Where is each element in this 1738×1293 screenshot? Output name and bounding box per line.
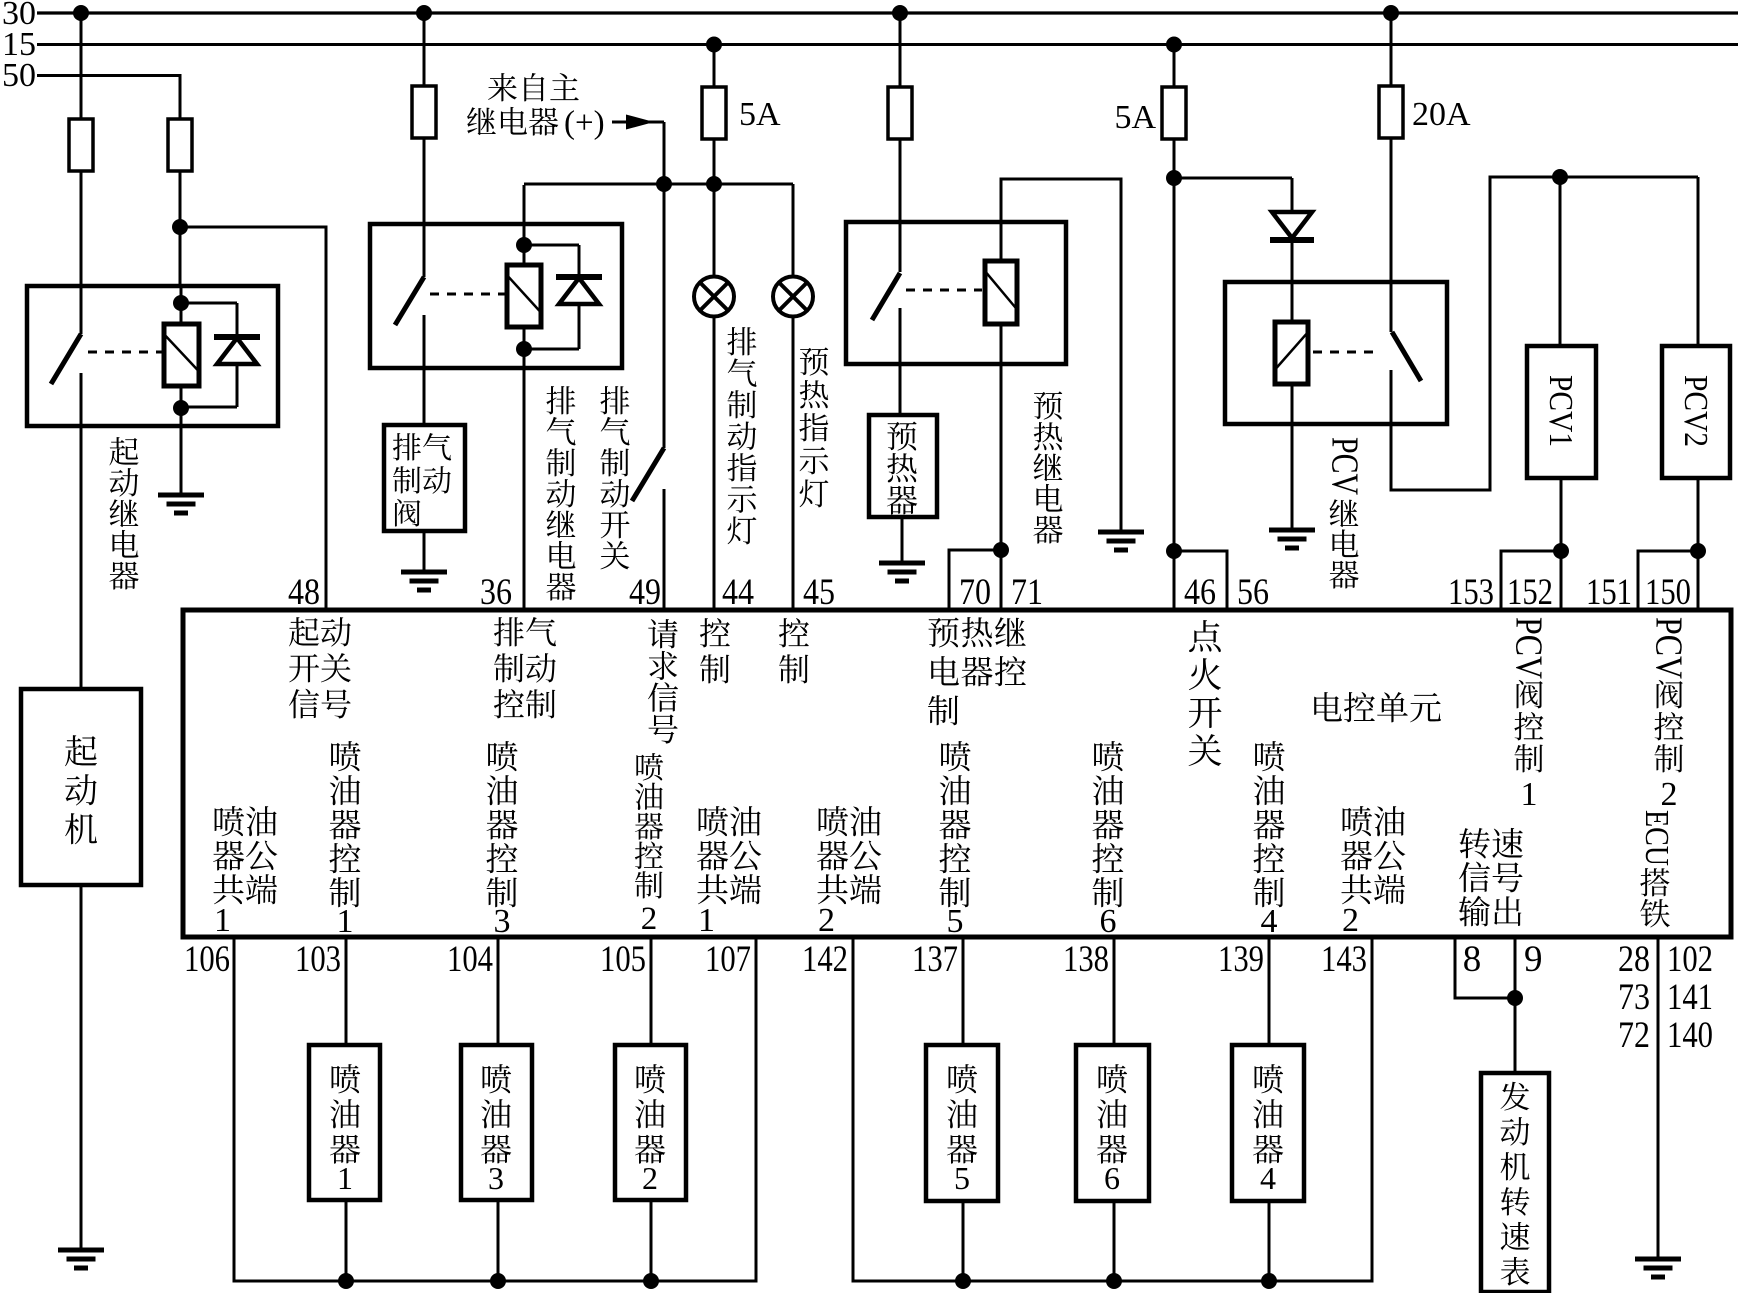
svg-text:PCV2: PCV2 <box>1677 375 1714 447</box>
bus 50 label <box>2 57 36 94</box>
wire K4 coil to ground <box>1291 384 1294 530</box>
wire bus30 to fuse F7 <box>1390 13 1393 87</box>
pin 105 <box>600 939 646 980</box>
pin 71 <box>1011 572 1043 613</box>
label 转速信号输出 <box>1459 828 1523 927</box>
K1 switch <box>51 288 81 428</box>
wire K2 to exhaust brake valve <box>423 368 426 427</box>
label 来自主继电器(+) <box>467 73 605 141</box>
exhaust brake switch 排气制动开关 <box>632 122 664 612</box>
node inj3 junction <box>490 1273 506 1289</box>
svg-text:105: 105 <box>600 939 646 980</box>
wire F2 to node A <box>179 171 182 229</box>
K4 switch out loop <box>1391 177 1698 490</box>
arrow from main relay <box>612 115 664 130</box>
fuse F3 <box>412 86 436 138</box>
node inj4 junction <box>1261 1273 1277 1289</box>
bus 30 label <box>2 0 36 32</box>
svg-text:5A: 5A <box>739 96 781 133</box>
svg-text:2: 2 <box>641 901 658 937</box>
svg-text:2: 2 <box>642 1160 658 1196</box>
label 点火开关 <box>1189 620 1222 766</box>
svg-text:(+): (+) <box>564 105 605 141</box>
K3 coil bottom wire <box>1000 324 1003 612</box>
injector 1 box <box>309 1045 380 1200</box>
wire pin 9 to tachometer <box>1514 937 1517 1073</box>
injector 6 box <box>1076 1045 1149 1201</box>
label 起动继电器 <box>109 437 138 590</box>
ground for K3 coil <box>1098 532 1144 550</box>
pin 107 <box>705 939 751 980</box>
wire F1 to K1 switch <box>80 171 83 288</box>
svg-text:44: 44 <box>722 572 754 613</box>
label 喷油器公共端1 (106) <box>213 806 277 939</box>
label 喷油器控制4 <box>1253 741 1284 940</box>
injector 2 box <box>615 1045 686 1200</box>
fuse F6 5A <box>1162 87 1186 139</box>
label 预热继电器 <box>1033 391 1062 543</box>
K3 coil <box>985 261 1017 324</box>
K1 flyback diode D1 <box>181 303 260 407</box>
K2 coil junction bottom <box>516 341 532 357</box>
pin 48 <box>288 572 320 613</box>
label 喷油器4 <box>1253 1064 1283 1196</box>
K2 flyback diode D2 <box>524 245 602 349</box>
fuse F4 5A <box>702 87 726 139</box>
svg-text:153: 153 <box>1448 572 1494 613</box>
wire pin 142 common rail 2 <box>853 937 1372 1281</box>
label 20A <box>1412 96 1471 133</box>
PCV1 box <box>1527 346 1596 478</box>
wire to PCV1 <box>1559 177 1562 348</box>
svg-text:2: 2 <box>818 902 835 939</box>
wire F3 to K2 switch <box>423 138 426 226</box>
label 预热指示灯 <box>799 347 828 507</box>
svg-text:1: 1 <box>1521 776 1538 813</box>
label 喷油器1 <box>330 1064 360 1196</box>
pin 137 <box>912 939 958 980</box>
ground under starter <box>58 1250 104 1268</box>
tachometer box 发动机转速表 <box>1481 1073 1549 1292</box>
svg-text:6: 6 <box>1104 1160 1120 1196</box>
wire F6 to ECU pin 46 <box>1173 138 1176 612</box>
wire F4 to node 44 <box>713 138 716 184</box>
K1 coil junction bottom <box>173 400 189 416</box>
wire to lamp HL2 <box>792 184 795 277</box>
wire F5 to K3 switch <box>899 138 902 224</box>
svg-text:49: 49 <box>629 572 661 613</box>
PCV2 box <box>1662 346 1730 478</box>
wire pin 106 common rail 1 <box>234 937 756 1281</box>
svg-text:48: 48 <box>288 572 320 613</box>
wire PCV1 to ECU pin 152 <box>1560 478 1563 612</box>
svg-text:5A: 5A <box>1114 99 1156 136</box>
label 起动机 <box>65 735 97 844</box>
K3 switch <box>872 224 900 366</box>
label PCV1 <box>1542 375 1579 447</box>
svg-text:20A: 20A <box>1412 96 1471 133</box>
wire node B to diode D4 <box>1174 178 1292 212</box>
node inj5 junction <box>955 1273 971 1289</box>
svg-text:71: 71 <box>1011 572 1043 613</box>
injector 4 box <box>1232 1045 1304 1201</box>
K3 coil top to ground wire <box>1001 179 1121 532</box>
node A junction <box>172 219 188 235</box>
relay K3 box 预热继电器 <box>846 222 1066 364</box>
node inj2 junction <box>643 1273 659 1289</box>
ground ECU <box>1635 1259 1681 1277</box>
svg-text:56: 56 <box>1237 572 1269 613</box>
svg-text:73: 73 <box>1618 977 1650 1018</box>
label 控制 45 <box>779 618 809 683</box>
svg-text:70: 70 <box>959 572 991 613</box>
label 喷油器控制3 <box>486 741 517 940</box>
label 发动机转速表 <box>1500 1082 1529 1286</box>
pin 56 <box>1237 572 1269 613</box>
fuse F2 <box>168 119 192 171</box>
label 排气制动开关 <box>600 386 629 569</box>
svg-text:143: 143 <box>1321 939 1367 980</box>
svg-text:104: 104 <box>447 939 493 980</box>
wire to ECU pin 153 <box>1501 551 1561 612</box>
pin 9 <box>1524 939 1543 980</box>
svg-text:8: 8 <box>1463 939 1482 980</box>
pin 150 <box>1645 572 1691 613</box>
svg-text:103: 103 <box>295 939 341 980</box>
bus 15 <box>37 37 1738 53</box>
lamp HL1 排气制动指示灯 <box>694 277 734 317</box>
K3 dashed link <box>906 289 982 292</box>
label 预热器 <box>887 421 917 514</box>
bus 15 label <box>2 26 36 63</box>
pin 142 <box>802 939 848 980</box>
ECU box 电控单元 <box>183 610 1731 937</box>
label 喷油器5 <box>947 1064 977 1196</box>
svg-text:PCV1: PCV1 <box>1542 375 1579 447</box>
wire glow plug to ground <box>901 517 904 563</box>
node 46 junction <box>1166 543 1182 559</box>
label 排气制动继电器 <box>546 386 575 601</box>
svg-text:140: 140 <box>1667 1015 1713 1056</box>
node 9 junction <box>1507 990 1523 1006</box>
label 电控单元 <box>1314 692 1441 722</box>
pin 46 <box>1184 572 1216 613</box>
svg-text:4: 4 <box>1261 903 1278 940</box>
svg-text:ECU: ECU <box>1638 810 1675 866</box>
svg-text:3: 3 <box>494 903 511 940</box>
label 预热继电器控制 <box>928 617 1026 725</box>
wire K1 coil to ground <box>180 426 183 495</box>
wire to ECU pin 70 <box>949 550 1001 612</box>
ground under K4 coil <box>1269 530 1315 548</box>
pin 49 <box>629 572 661 613</box>
label 喷油器控制2 <box>635 753 663 937</box>
svg-text:152: 152 <box>1507 572 1553 613</box>
pin 153 <box>1448 572 1494 613</box>
svg-text:1: 1 <box>337 903 354 940</box>
node C junction <box>1552 169 1568 185</box>
feed line to lamps <box>524 183 793 186</box>
node 44 junction <box>706 176 722 192</box>
svg-text:102: 102 <box>1667 939 1713 980</box>
wire bus30 to fuse F1 <box>80 13 83 119</box>
pin 102 141 140 <box>1667 939 1713 1056</box>
wire to ECU pin 56 <box>1174 551 1227 612</box>
svg-text:PCV: PCV <box>1648 617 1690 679</box>
injector 1 wire <box>345 937 348 1281</box>
wire valve to ground <box>423 531 426 572</box>
injector 4 wire <box>1268 937 1271 1281</box>
fuse F7 20A <box>1379 86 1403 138</box>
pin 106 <box>184 939 230 980</box>
label 喷油器3 <box>481 1064 511 1196</box>
wire K3 to glow plug <box>899 364 902 417</box>
bus 50 <box>37 76 180 120</box>
node 49 junction <box>656 176 672 192</box>
relay K4 box PCV继电器 <box>1225 282 1447 424</box>
node B junction <box>1166 170 1182 186</box>
svg-text:5: 5 <box>954 1160 970 1196</box>
pin 143 <box>1321 939 1367 980</box>
svg-text:142: 142 <box>802 939 848 980</box>
K4 dashed link <box>1313 351 1378 354</box>
label 喷油器控制6 <box>1092 741 1123 940</box>
label 喷油器2 <box>635 1064 665 1196</box>
pin 28 73 72 <box>1618 939 1650 1056</box>
svg-text:PCV: PCV <box>1508 617 1550 679</box>
pin 139 <box>1218 939 1264 980</box>
wire D4 to K4 coil <box>1291 240 1294 322</box>
svg-text:107: 107 <box>705 939 751 980</box>
injector 5 box <box>926 1045 998 1201</box>
label 喷油器公共端2 (142) <box>817 806 881 939</box>
label ECU搭铁 <box>1638 810 1675 927</box>
injector 6 wire <box>1113 937 1116 1281</box>
svg-text:28: 28 <box>1618 939 1650 980</box>
svg-text:106: 106 <box>184 939 230 980</box>
fuse F1 <box>69 119 93 171</box>
K2 coil junction top <box>516 237 532 253</box>
svg-text:151: 151 <box>1586 572 1632 613</box>
fuse F5 <box>888 87 912 139</box>
wire bus15 to fuse F4a <box>713 45 716 89</box>
K2 switch <box>395 226 424 370</box>
svg-text:45: 45 <box>803 572 835 613</box>
svg-text:1: 1 <box>214 902 231 939</box>
series diode D4 <box>1270 212 1314 240</box>
wire node A to ECU pin 48 <box>180 227 326 612</box>
svg-text:139: 139 <box>1218 939 1264 980</box>
K1 coil junction top <box>173 295 189 311</box>
svg-text:6: 6 <box>1100 903 1117 940</box>
wire node A to K1 coil <box>179 227 182 288</box>
glow plug box 预热器 <box>869 415 937 517</box>
svg-text:3: 3 <box>488 1160 504 1196</box>
label PCV阀控制2 <box>1648 617 1690 813</box>
svg-text:1: 1 <box>337 1160 353 1196</box>
wire bus15 to fuse F6 <box>1173 45 1176 89</box>
svg-text:138: 138 <box>1063 939 1109 980</box>
pin 70 <box>959 572 991 613</box>
svg-text:36: 36 <box>480 572 512 613</box>
ground under glow plug <box>879 563 925 581</box>
wire node44 to lamp HL1 <box>713 184 716 277</box>
node inj1 junction <box>338 1273 354 1289</box>
wire HL2 to ECU pin 45 <box>792 316 795 612</box>
wire ECU ground <box>1657 937 1660 1259</box>
label 排气制动指示灯 <box>727 327 756 544</box>
wire PCV2 to ECU pin 150 <box>1697 478 1700 612</box>
pin 138 <box>1063 939 1109 980</box>
starter box 起动机 <box>21 689 141 885</box>
pin 45 <box>803 572 835 613</box>
K1 dashed link <box>88 351 162 354</box>
svg-text:72: 72 <box>1618 1015 1650 1056</box>
lamp HL2 预热指示灯 <box>773 277 813 317</box>
pin 36 <box>480 572 512 613</box>
svg-text:2: 2 <box>1342 902 1359 939</box>
label 请求信号 <box>648 619 678 743</box>
injector 5 wire <box>962 937 965 1281</box>
label PCV继电器 <box>1324 437 1366 589</box>
injector 3 box <box>461 1045 532 1200</box>
bus 30 <box>37 5 1738 21</box>
label 5A <box>739 96 781 133</box>
wire bus30 to fuse F3 <box>423 13 426 87</box>
label PCV2 <box>1677 375 1714 447</box>
ground under K1 <box>158 495 204 513</box>
wire K1 to starter <box>80 426 83 691</box>
K2 coil <box>507 185 541 612</box>
svg-text:1: 1 <box>698 902 715 939</box>
label 喷油器公共端2 (143) <box>1341 806 1405 939</box>
label 起动开关信号 <box>289 617 351 718</box>
label PCV阀控制1 <box>1508 617 1550 813</box>
label 控制 44 <box>700 618 730 683</box>
pin 8 <box>1463 939 1482 980</box>
label 喷油器控制1 <box>329 741 360 940</box>
injector 3 wire <box>497 937 500 1281</box>
node 150 junction <box>1690 543 1706 559</box>
wire bus30 to fuse F5 <box>899 13 902 88</box>
injector 2 wire <box>650 937 653 1281</box>
pin 151 <box>1586 572 1632 613</box>
K1 coil <box>164 288 199 428</box>
svg-text:46: 46 <box>1184 572 1216 613</box>
pin 104 <box>447 939 493 980</box>
node inj6 junction <box>1106 1273 1122 1289</box>
wire to ECU pin 151 <box>1638 551 1698 612</box>
svg-text:137: 137 <box>912 939 958 980</box>
relay K1 box 起动继电器 <box>27 286 278 426</box>
pin 103 <box>295 939 341 980</box>
svg-text:50: 50 <box>2 57 36 94</box>
svg-text:PCV: PCV <box>1324 437 1366 495</box>
relay K2 box 排气制动继电器 <box>370 224 622 368</box>
svg-text:2: 2 <box>1661 776 1678 813</box>
label 喷油器6 <box>1097 1064 1127 1196</box>
label 排气制动控制 <box>494 617 556 718</box>
K4 switch <box>1391 137 1421 426</box>
ground under valve <box>401 572 447 590</box>
node 152 junction <box>1553 543 1569 559</box>
exhaust brake valve box 排气制动阀 <box>384 425 465 531</box>
svg-text:141: 141 <box>1667 977 1713 1018</box>
svg-text:4: 4 <box>1260 1160 1276 1196</box>
wire to PCV2 <box>1697 177 1700 348</box>
wire HL1 to ECU pin 44 <box>713 316 716 612</box>
K4 coil <box>1275 322 1308 384</box>
svg-text:150: 150 <box>1645 572 1691 613</box>
wire pin 8 <box>1455 937 1515 998</box>
label 排气制动阀 <box>393 433 451 527</box>
label 5A right <box>1114 99 1156 136</box>
node 70/71 junction <box>993 542 1009 558</box>
pin 44 <box>722 572 754 613</box>
label 喷油器控制5 <box>939 741 970 940</box>
pin 152 <box>1507 572 1553 613</box>
wire starter to ground <box>80 885 83 1250</box>
K2 dashed link <box>430 293 505 296</box>
label 喷油器公共端1 (107) <box>697 806 761 939</box>
svg-text:9: 9 <box>1524 939 1543 980</box>
svg-text:5: 5 <box>947 903 964 940</box>
